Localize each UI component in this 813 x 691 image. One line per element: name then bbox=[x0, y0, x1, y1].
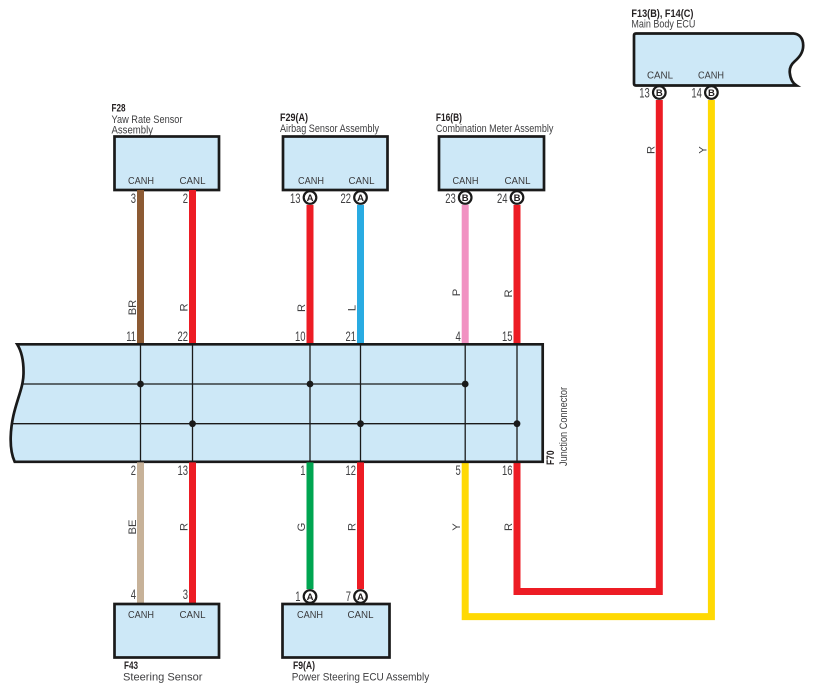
wire BR F28 pin3 to junction pin 11 bbox=[137, 190, 144, 344]
svg-text:21: 21 bbox=[345, 329, 356, 344]
pin 1 (A) F9 CANH bbox=[295, 589, 316, 604]
svg-text:3: 3 bbox=[131, 191, 136, 206]
svg-text:F43: F43 bbox=[124, 660, 138, 672]
wire vertical pin 21-12 bbox=[360, 344, 362, 462]
svg-text:Junction Connector: Junction Connector bbox=[558, 387, 570, 466]
svg-text:B: B bbox=[708, 88, 715, 99]
svg-text:R: R bbox=[503, 289, 515, 297]
svg-text:P: P bbox=[451, 289, 463, 296]
svg-text:CANL: CANL bbox=[647, 71, 673, 82]
svg-text:Airbag Sensor Assembly: Airbag Sensor Assembly bbox=[280, 123, 380, 135]
wire R F28 pin2 to junction pin 22 bbox=[189, 190, 196, 344]
pin 24 (B) F16 CANL bbox=[497, 191, 523, 206]
node junction CANH-10 bbox=[307, 381, 314, 388]
svg-text:CANH: CANH bbox=[128, 610, 154, 621]
node junction CANH-11 bbox=[137, 381, 144, 388]
svg-text:22: 22 bbox=[177, 329, 188, 344]
svg-text:5: 5 bbox=[455, 463, 460, 478]
svg-text:B: B bbox=[462, 193, 469, 204]
svg-text:13: 13 bbox=[177, 463, 188, 478]
node junction CANL-12 bbox=[357, 420, 364, 427]
svg-text:16: 16 bbox=[502, 463, 513, 478]
svg-text:R: R bbox=[179, 303, 191, 311]
svg-text:R: R bbox=[347, 523, 359, 531]
svg-text:13: 13 bbox=[290, 191, 301, 206]
wire Y Main Body ECU pin14 to junction pin 5 bbox=[465, 100, 711, 617]
connector F29(A) Airbag Sensor Assembly bbox=[280, 112, 388, 190]
wire vertical pin 11-2 bbox=[140, 344, 142, 462]
svg-text:F70: F70 bbox=[545, 451, 557, 466]
svg-text:24: 24 bbox=[497, 191, 508, 206]
svg-text:22: 22 bbox=[340, 191, 351, 206]
node junction CANH-4 bbox=[462, 381, 469, 388]
wire CANH bus horizontal bbox=[22, 383, 465, 385]
svg-text:L: L bbox=[347, 305, 359, 311]
connector F16(B) Combination Meter Assembly bbox=[436, 112, 554, 190]
wire CANL bus horizontal bbox=[11, 423, 517, 425]
svg-text:4: 4 bbox=[455, 329, 461, 344]
svg-text:23: 23 bbox=[445, 191, 456, 206]
wire P F16 pin23 to junction pin 4 bbox=[462, 205, 469, 344]
wire vertical pin 10-1 bbox=[309, 344, 311, 462]
svg-text:CANL: CANL bbox=[180, 610, 206, 621]
connector F28 Yaw Rate Sensor Assembly bbox=[112, 103, 220, 190]
svg-text:Combination Meter Assembly: Combination Meter Assembly bbox=[436, 123, 554, 135]
svg-text:BR: BR bbox=[127, 300, 139, 316]
svg-text:10: 10 bbox=[295, 329, 306, 344]
wire R F29 pin13 to junction pin 10 bbox=[307, 205, 314, 344]
svg-text:1: 1 bbox=[300, 463, 305, 478]
ECU F13(B), F14(C) Main Body ECU bbox=[631, 8, 803, 86]
wire R Main Body ECU pin13 to junction pin 16 bbox=[517, 100, 659, 592]
node junction CANL-16 bbox=[514, 420, 521, 427]
connector F43 Steering Sensor bbox=[115, 604, 220, 684]
svg-text:14: 14 bbox=[691, 86, 702, 101]
svg-text:B: B bbox=[656, 88, 663, 99]
svg-text:Main Body ECU: Main Body ECU bbox=[631, 19, 695, 31]
label F70 Junction Connector bbox=[545, 387, 570, 466]
svg-text:Y: Y bbox=[451, 523, 463, 531]
pin 13 (A) F29 CANH bbox=[290, 191, 316, 206]
svg-text:CANH: CANH bbox=[298, 176, 324, 187]
svg-text:12: 12 bbox=[345, 463, 356, 478]
svg-text:CANH: CANH bbox=[453, 176, 479, 187]
svg-text:11: 11 bbox=[126, 329, 136, 344]
svg-text:G: G bbox=[296, 523, 308, 532]
svg-text:F28: F28 bbox=[112, 103, 126, 115]
svg-text:13: 13 bbox=[639, 86, 650, 101]
svg-text:15: 15 bbox=[502, 329, 513, 344]
wire R junction pin 12 to F9 pin 7 bbox=[357, 462, 364, 589]
svg-text:F9(A): F9(A) bbox=[293, 660, 315, 672]
svg-text:F16(B): F16(B) bbox=[436, 112, 462, 124]
svg-text:BE: BE bbox=[127, 520, 139, 535]
svg-text:R: R bbox=[179, 523, 191, 531]
svg-text:Power Steering ECU Assembly: Power Steering ECU Assembly bbox=[292, 672, 430, 684]
svg-text:2: 2 bbox=[183, 191, 188, 206]
svg-text:Y: Y bbox=[697, 146, 709, 154]
svg-text:CANH: CANH bbox=[128, 176, 154, 187]
connector F9(A) Power Steering ECU Assembly bbox=[283, 604, 430, 684]
pin 14 (B) Main Body ECU CANH bbox=[691, 86, 717, 101]
svg-text:CANL: CANL bbox=[348, 610, 374, 621]
svg-text:4: 4 bbox=[131, 587, 137, 602]
svg-text:A: A bbox=[357, 193, 364, 204]
svg-text:CANH: CANH bbox=[698, 71, 724, 82]
wire vertical pin 22-13 bbox=[192, 344, 194, 462]
pin 7 (A) F9 CANL bbox=[346, 589, 367, 604]
svg-text:A: A bbox=[307, 193, 314, 204]
wire R F16 pin24 to junction pin 15 bbox=[514, 205, 521, 344]
pin 13 (B) Main Body ECU CANL bbox=[639, 86, 665, 101]
svg-text:A: A bbox=[357, 592, 364, 603]
svg-text:Assembly: Assembly bbox=[112, 125, 154, 137]
node junction CANL-13 bbox=[189, 420, 196, 427]
svg-text:F29(A): F29(A) bbox=[280, 112, 308, 124]
wire vertical pin 15-16 bbox=[516, 344, 518, 462]
svg-text:CANL: CANL bbox=[505, 176, 531, 187]
wire BE junction pin 2 to F43 pin 4 bbox=[137, 462, 144, 604]
svg-text:A: A bbox=[307, 592, 314, 603]
wire R junction pin 13 to F43 pin 3 bbox=[189, 462, 196, 604]
wire G junction pin 1 to F9 pin 1 bbox=[307, 462, 314, 589]
wire vertical pin 4-5 bbox=[464, 344, 466, 462]
svg-text:B: B bbox=[514, 193, 521, 204]
svg-text:R: R bbox=[645, 146, 657, 154]
svg-text:CANL: CANL bbox=[349, 176, 375, 187]
svg-text:2: 2 bbox=[131, 463, 136, 478]
svg-text:7: 7 bbox=[346, 589, 351, 604]
svg-text:CANH: CANH bbox=[297, 610, 323, 621]
pin 23 (B) F16 CANH bbox=[445, 191, 471, 206]
pin 22 (A) F29 CANL bbox=[340, 191, 366, 206]
svg-text:R: R bbox=[296, 304, 308, 312]
svg-text:R: R bbox=[503, 523, 515, 531]
junction connector F70 bbox=[11, 344, 543, 462]
svg-text:1: 1 bbox=[295, 589, 300, 604]
svg-text:Steering Sensor: Steering Sensor bbox=[123, 672, 203, 684]
svg-text:CANL: CANL bbox=[180, 176, 206, 187]
svg-text:3: 3 bbox=[183, 587, 188, 602]
wire L F29 pin22 to junction pin 21 bbox=[357, 205, 364, 344]
